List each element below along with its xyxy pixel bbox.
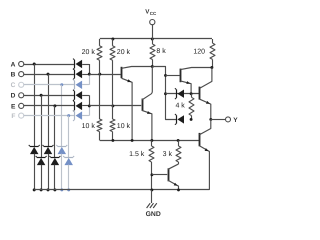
svg-text:D: D <box>11 93 16 100</box>
svg-text:GND: GND <box>146 211 161 218</box>
svg-text:C: C <box>11 82 16 89</box>
svg-text:CC: CC <box>150 11 157 16</box>
svg-text:20 k: 20 k <box>82 48 96 56</box>
svg-text:8 k: 8 k <box>156 47 166 55</box>
svg-text:10 k: 10 k <box>117 122 131 130</box>
svg-text:4 k: 4 k <box>175 102 185 110</box>
svg-text:A: A <box>11 61 16 68</box>
svg-text:1.5 k: 1.5 k <box>129 150 145 158</box>
svg-text:Y: Y <box>233 117 238 124</box>
svg-text:E: E <box>11 103 16 110</box>
svg-text:B: B <box>11 71 16 78</box>
svg-text:10 k: 10 k <box>82 122 96 130</box>
svg-text:120: 120 <box>193 48 205 55</box>
svg-text:F: F <box>11 113 15 120</box>
svg-text:20 k: 20 k <box>117 48 131 56</box>
svg-text:3 k: 3 k <box>163 150 173 158</box>
